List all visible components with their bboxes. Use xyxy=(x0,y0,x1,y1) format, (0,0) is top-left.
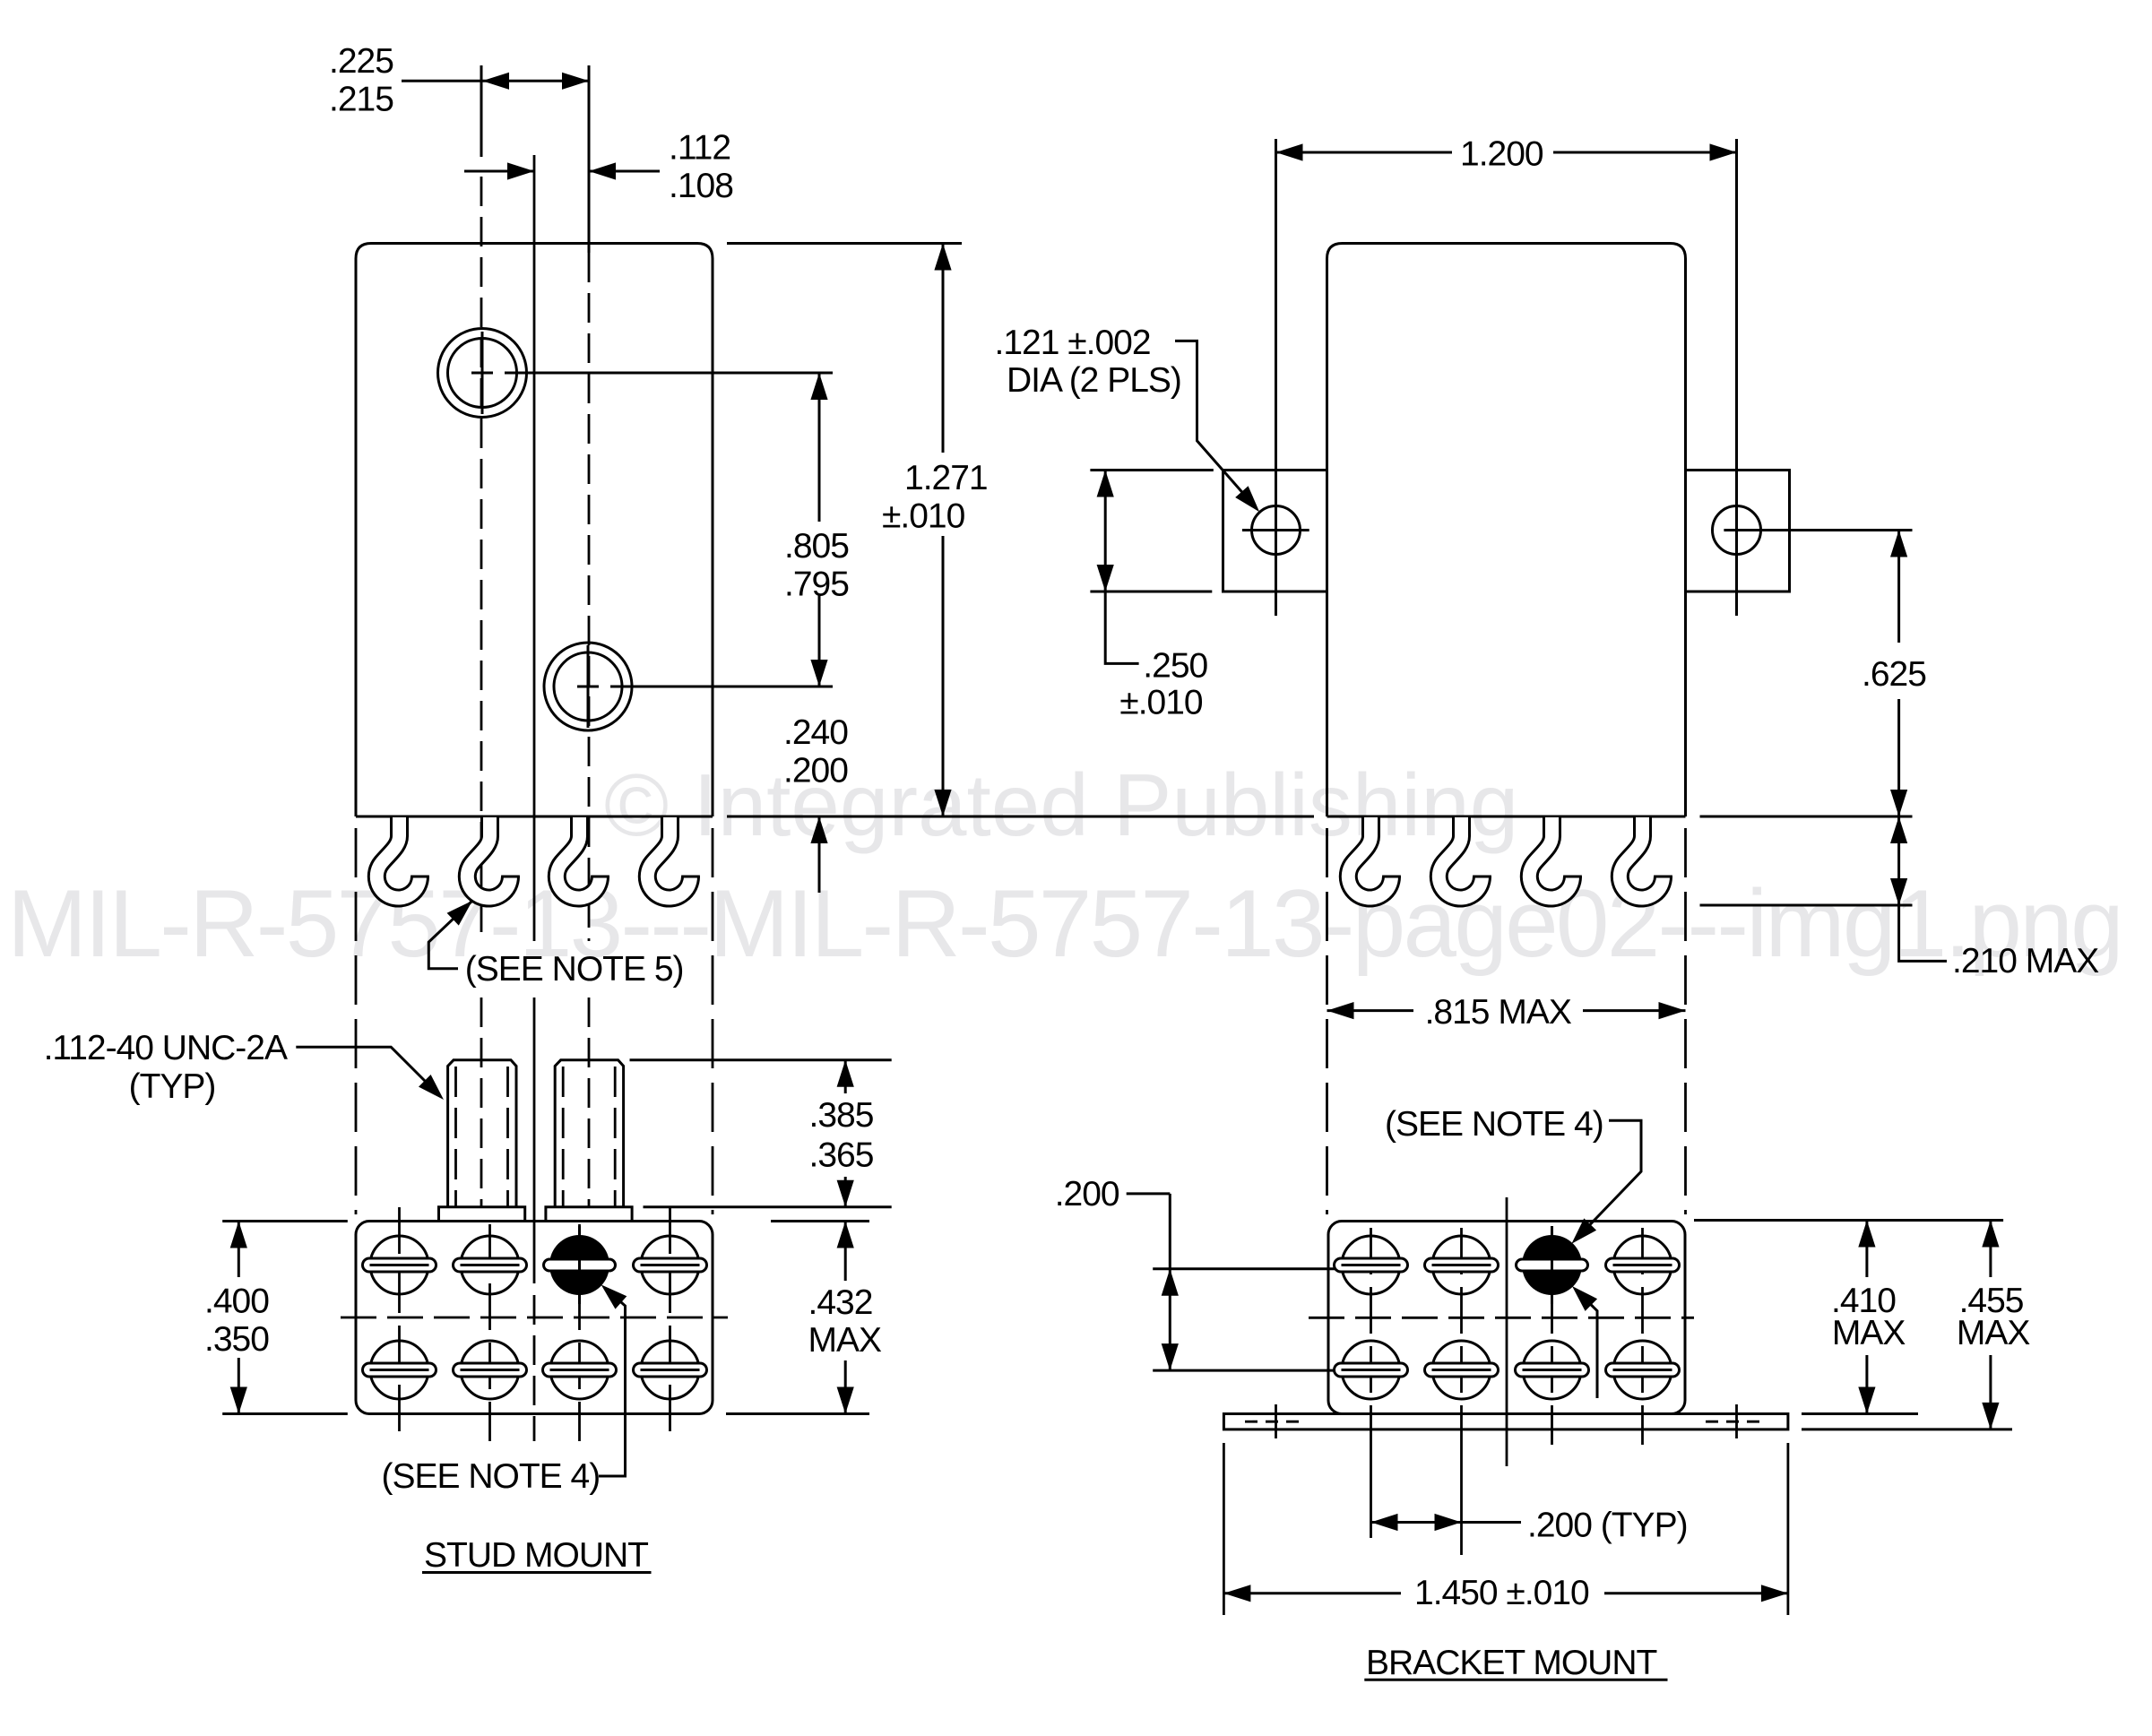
svg-text:.385: .385 xyxy=(809,1096,874,1135)
terminal screw row2 col1 xyxy=(363,1341,436,1399)
dimension .385/.365 dimension line and arrows xyxy=(844,1060,847,1093)
dimension .815 MAX dimension line xyxy=(1327,1009,1414,1012)
dimension 1.450 arrows xyxy=(1223,1585,1250,1602)
svg-text:(SEE NOTE 4): (SEE NOTE 4) xyxy=(1385,1105,1603,1144)
bracket screw row2 col3 xyxy=(1516,1341,1589,1399)
dimension .250 leader below xyxy=(1105,592,1138,663)
centerline through hole H1, x=537, tick above body xyxy=(480,65,483,157)
title BRACKET MOUNT underline xyxy=(1364,1679,1667,1681)
svg-text:MAX: MAX xyxy=(1832,1314,1906,1352)
column line over black screw bracket col3 xyxy=(1551,1226,1553,1304)
mounting hole H1 outer circle xyxy=(438,329,527,418)
dimension 1.271 dimension line xyxy=(942,244,945,453)
screw column centerline c2 xyxy=(488,1224,491,1441)
terminal screw row1 col1 xyxy=(363,1236,436,1294)
hook terminal T5, bracket mount xyxy=(1348,817,1401,898)
centerline through hole H2 dashed inside body xyxy=(588,253,591,941)
column line over black screw col3 xyxy=(578,1226,581,1304)
svg-text:1.200: 1.200 xyxy=(1460,135,1543,174)
stud S1 base flange xyxy=(439,1207,525,1222)
dimension .200 rows dimension line and arrows xyxy=(1169,1194,1171,1370)
dimension .210 MAX arrows xyxy=(1890,816,1907,843)
dimension .112/.108 line right part xyxy=(589,170,660,173)
bracket view vertical centerline x=1681 xyxy=(1506,1197,1508,1466)
left bracket ear outline xyxy=(1223,471,1327,592)
hook terminal T1, stud mount xyxy=(376,817,429,898)
hole H2 centre cross xyxy=(577,686,599,688)
stud base extension line for .385 dimension xyxy=(644,1205,892,1208)
svg-text:.805: .805 xyxy=(784,527,849,566)
ear bottom extension line for .250 dimension xyxy=(1090,591,1212,593)
label SEE NOTE 4 right arrowhead upper xyxy=(1571,1218,1596,1243)
plate bottom extension line at right xyxy=(1802,1428,2012,1430)
terminal screw row2 col2 xyxy=(454,1341,527,1399)
hook terminal T8, bracket mount xyxy=(1620,817,1672,898)
stud S2 thread dashed lines xyxy=(562,1067,565,1207)
label SEE NOTE 4 right arrowhead lower xyxy=(1572,1286,1597,1311)
svg-text:MIL-R-5757-13---MIL-R-5757-13-: MIL-R-5757-13---MIL-R-5757-13-page02---i… xyxy=(7,869,2122,977)
dimension .240/.200 arrow below body line xyxy=(810,816,827,843)
dimension .225/.215 dimension line xyxy=(402,80,482,82)
svg-text:1.271: 1.271 xyxy=(904,459,988,497)
terminal screw row1 col4 xyxy=(634,1236,707,1294)
svg-text:±.010: ±.010 xyxy=(882,497,965,536)
centerline x=657 lower, to stud 2 xyxy=(588,998,591,1207)
label .121 DIA leader xyxy=(1175,341,1253,505)
centerline x=596 lower part through terminal block xyxy=(533,998,536,1283)
bracket screw column line c4 xyxy=(1641,1228,1644,1445)
svg-text:.200: .200 xyxy=(783,752,848,790)
bracket hole left circle xyxy=(1252,506,1301,555)
stud top extension line for .385 dimension xyxy=(630,1058,892,1061)
dashed projection line from body right edge x=795 xyxy=(712,828,714,1214)
dimension .805/.795 dimension line xyxy=(818,373,821,522)
threaded stud S2 outline xyxy=(555,1060,623,1207)
bracket screw row1 col4 xyxy=(1606,1236,1680,1294)
dashed projection line from body left edge x=397 xyxy=(355,828,358,1214)
ear top extension line for .250 dimension xyxy=(1090,469,1213,471)
plate top extension line at right xyxy=(1802,1412,1918,1415)
hook terminal T6, bracket mount xyxy=(1439,817,1491,898)
hole H2 horizontal extension line xyxy=(610,686,833,688)
svg-text:.400: .400 xyxy=(204,1283,269,1321)
label SEE NOTE 5 arrowhead xyxy=(447,901,472,926)
svg-text:.432: .432 xyxy=(808,1283,873,1322)
hole H1 centre cross xyxy=(471,372,493,375)
bracket screw row2 col2 xyxy=(1425,1341,1499,1399)
dimension .225/.215 arrows xyxy=(482,73,509,90)
svg-text:±.010: ±.010 xyxy=(1119,684,1203,722)
svg-text:.112-40 UNC-2A: .112-40 UNC-2A xyxy=(44,1029,288,1067)
threaded stud S1 outline xyxy=(448,1060,516,1207)
svg-text:.108: .108 xyxy=(669,167,733,205)
stud S1 thread dashed lines xyxy=(454,1067,457,1207)
label .112-40 UNC-2A leader xyxy=(296,1047,438,1094)
dimension .815 MAX arrows xyxy=(1327,1002,1354,1019)
svg-text:.225: .225 xyxy=(329,42,393,81)
dimension .250 dimension line and arrows xyxy=(1104,471,1107,592)
stud S2 base flange xyxy=(546,1207,632,1222)
terminal block outline, bracket mount xyxy=(1328,1222,1685,1414)
label SEE NOTE 4 left leader xyxy=(599,1289,626,1476)
svg-text:.350: .350 xyxy=(204,1320,269,1359)
dimension 1.200 dimension line xyxy=(1276,151,1453,154)
bracket screw row1 col2 xyxy=(1425,1236,1499,1294)
plate hole tick left xyxy=(1275,1404,1277,1438)
label .121 DIA arrowhead xyxy=(1235,486,1259,512)
bracket block horizontal centerline between rows xyxy=(1309,1317,1694,1319)
dimension 1.271 arrows xyxy=(934,244,951,271)
plate right end extension line for 1.450 xyxy=(1787,1443,1790,1615)
dimension .625 arrows xyxy=(1890,531,1907,557)
terminal screw row1 col2 xyxy=(454,1236,527,1294)
label .112-40 UNC-2A arrowhead xyxy=(419,1075,444,1100)
bracket mounting plate outline xyxy=(1223,1414,1788,1429)
label SEE NOTE 5 leader xyxy=(428,901,472,969)
hook terminal T3, stud mount xyxy=(557,817,609,898)
body bottom extension line right of bracket view xyxy=(1700,816,1913,818)
vertical centerline of body x=596 upper part xyxy=(533,155,536,941)
relay body outline, bracket mount front view xyxy=(1327,244,1686,817)
block top extension line for .410/.455 dimensions xyxy=(1694,1219,2003,1222)
svg-text:.625: .625 xyxy=(1862,655,1926,694)
dimension .400/.350 dimension line and arrows xyxy=(238,1222,240,1278)
body top extension line to 1.271 dimension xyxy=(727,242,962,245)
block bottom extension at right xyxy=(726,1412,869,1415)
bracket screw column line c3 xyxy=(1551,1228,1553,1445)
svg-text:.240: .240 xyxy=(783,713,848,752)
svg-text:.215: .215 xyxy=(329,81,393,119)
relay body outline, stud mount front view xyxy=(356,244,713,817)
label .200 leader xyxy=(1127,1192,1171,1195)
svg-text:.112: .112 xyxy=(669,129,730,168)
dimension .112/.108 arrows xyxy=(507,162,534,179)
bracket screw column line c2 extended for .200 TYP xyxy=(1460,1228,1463,1441)
dimension .200 TYP leader to text xyxy=(1462,1521,1522,1524)
label SEE NOTE 4 right leader upper xyxy=(1577,1120,1641,1239)
bracket hole right cross arm and extension to .625 dimension xyxy=(1724,529,1912,531)
dimension 1.200 arrows xyxy=(1276,143,1303,160)
svg-text:1.450 ±.010: 1.450 ±.010 xyxy=(1414,1574,1589,1612)
dashed projection line from bracket body left edge xyxy=(1326,828,1328,1214)
bracket hole right circle xyxy=(1713,506,1761,555)
screw column centerline c1 xyxy=(398,1207,401,1441)
svg-text:.795: .795 xyxy=(784,566,849,604)
svg-text:DIA (2 PLS): DIA (2 PLS) xyxy=(1007,361,1181,400)
dimension .805/.795 arrows xyxy=(810,373,827,400)
svg-text:BRACKET MOUNT: BRACKET MOUNT xyxy=(1366,1644,1656,1682)
body bottom extension line to 1.271 dimension xyxy=(727,816,1314,818)
terminal screw row1 col3 black (note 4) xyxy=(544,1235,616,1295)
dimension 1.450 dimension line xyxy=(1223,1592,1401,1594)
plate hole left centerline dashes xyxy=(1245,1421,1307,1423)
bracket screw row1 col3 black (note 4) xyxy=(1517,1235,1588,1295)
svg-text:.210 MAX: .210 MAX xyxy=(1952,942,2099,980)
svg-text:(TYP): (TYP) xyxy=(129,1067,216,1106)
hook terminal T4, stud mount xyxy=(647,817,700,898)
title STUD MOUNT underline xyxy=(422,1571,652,1574)
dimension 1.200 right extension line through bracket hole xyxy=(1735,139,1738,616)
centerline through hole H2 x=657 solid above body xyxy=(588,65,591,253)
plate hole tick right xyxy=(1735,1404,1738,1438)
label SEE NOTE 4 left arrowhead xyxy=(601,1284,627,1308)
terminal screw row2 col4 xyxy=(634,1341,707,1399)
dimension .210 MAX leader and text xyxy=(1899,905,1947,961)
hook terminal T2, stud mount xyxy=(467,817,520,898)
block top extension line for .400 dimension xyxy=(222,1220,348,1222)
svg-text:© Integrated Publishing: © Integrated Publishing xyxy=(604,756,1518,854)
bracket screw row2 col1 xyxy=(1335,1341,1408,1399)
svg-text:.121 ±.002: .121 ±.002 xyxy=(995,324,1151,362)
screw row2 extension line, bracket view xyxy=(1153,1369,1358,1372)
right bracket ear outline xyxy=(1686,471,1790,592)
svg-text:.250: .250 xyxy=(1143,647,1207,686)
dimension .455 MAX line and arrows xyxy=(1989,1221,1992,1278)
svg-text:.200 (TYP): .200 (TYP) xyxy=(1527,1507,1688,1545)
dashed projection line from bracket body right edge xyxy=(1684,828,1687,1214)
hook terminal T7, bracket mount xyxy=(1529,817,1582,898)
dimension .112/.108 dimension line left part xyxy=(464,170,534,173)
dimension .432 MAX arrows at right of block xyxy=(837,1222,854,1248)
dimension 1.200 left extension line through bracket hole xyxy=(1275,139,1277,616)
screw row1 extension line, bracket view xyxy=(1153,1267,1358,1270)
svg-text:.365: .365 xyxy=(809,1136,874,1174)
bracket screw row2 col4 xyxy=(1606,1341,1680,1399)
block bottom extension line for .400 dimension xyxy=(222,1412,348,1415)
bracket screw column line c1 extended for .200 TYP xyxy=(1370,1228,1372,1441)
bracket hole left cross arm xyxy=(1242,529,1309,531)
screw column centerline c4 xyxy=(669,1207,671,1441)
terminal tip extension line for .210 MAX xyxy=(1700,904,1913,907)
block horizontal centerline between screw rows xyxy=(341,1317,728,1319)
svg-text:(SEE NOTE 4): (SEE NOTE 4) xyxy=(382,1457,601,1496)
plate hole right centerline dashes xyxy=(1706,1421,1767,1423)
dimension .625 dimension line xyxy=(1897,531,1900,643)
centerline through hole H1, dashed xyxy=(480,177,483,941)
plate left end extension line for 1.450 xyxy=(1223,1443,1225,1615)
terminal screw row2 col3 xyxy=(543,1341,617,1399)
mounting hole H1 inner circle xyxy=(448,339,517,408)
svg-text:STUD MOUNT: STUD MOUNT xyxy=(424,1536,648,1575)
svg-text:.815 MAX: .815 MAX xyxy=(1425,993,1572,1032)
mounting hole H2 outer circle xyxy=(544,643,632,730)
screw column centerline c3 xyxy=(578,1224,581,1441)
block top short extension at right xyxy=(771,1220,869,1222)
dimension .200 TYP dimension line and arrows xyxy=(1371,1521,1462,1524)
label SEE NOTE 4 right leader lower xyxy=(1576,1290,1597,1398)
hole H1 horizontal extension line to .805 dimension xyxy=(505,372,833,375)
mounting hole H2 inner circle xyxy=(554,652,622,721)
centerline x=537 lower, to stud 1 xyxy=(480,998,483,1207)
dimension .410 MAX line and arrows xyxy=(1865,1221,1868,1278)
bracket screw row1 col1 xyxy=(1335,1236,1408,1294)
body bottom edge, stud mount xyxy=(356,816,713,818)
terminal block outline, stud mount xyxy=(356,1222,713,1414)
svg-text:MAX: MAX xyxy=(808,1321,883,1360)
body bottom edge, bracket mount xyxy=(1327,816,1686,818)
svg-text:MAX: MAX xyxy=(1957,1314,2031,1352)
svg-text:.200: .200 xyxy=(1055,1175,1119,1213)
svg-text:(SEE NOTE 5): (SEE NOTE 5) xyxy=(465,950,684,989)
